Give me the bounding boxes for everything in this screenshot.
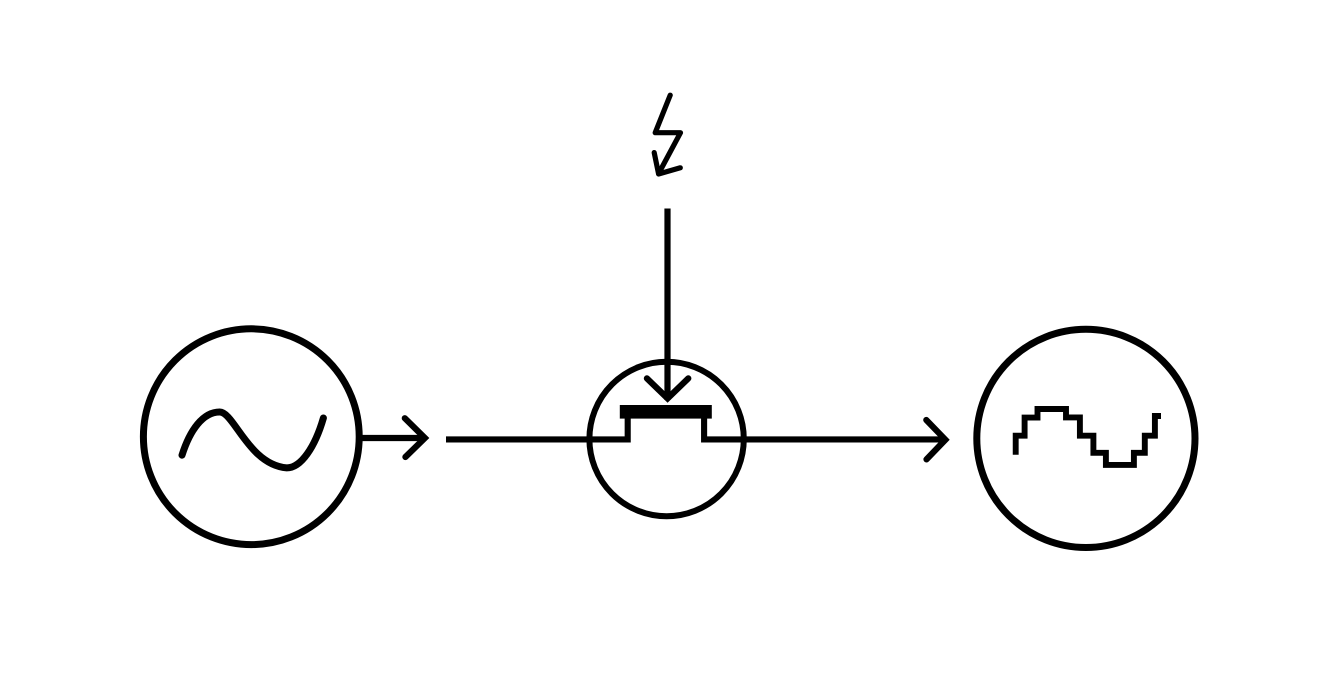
wire: arrow shaft out of left circle xyxy=(362,435,425,441)
sine wave inside left circle xyxy=(182,412,323,468)
staircase quantized wave inside right circle xyxy=(1016,409,1161,465)
wire: clock vertical line into sampler xyxy=(664,209,670,401)
wire: sampler right leg to output arrow shaft xyxy=(704,416,946,439)
lightning bolt (clock trigger) xyxy=(655,95,680,173)
sampler gate bar xyxy=(620,405,712,419)
analog signal source circle (left) xyxy=(143,329,359,545)
wire: line from gap to sampler left leg xyxy=(446,416,628,439)
arrowhead chevron (right arrow) xyxy=(926,420,945,459)
quantized signal circle (right) xyxy=(977,329,1195,547)
lightning bolt arrowhead xyxy=(654,153,680,174)
arrowhead chevron (clock arrow) xyxy=(647,378,688,398)
arrowhead chevron (left arrow) xyxy=(405,418,425,457)
sampler circle (middle) xyxy=(589,362,743,516)
